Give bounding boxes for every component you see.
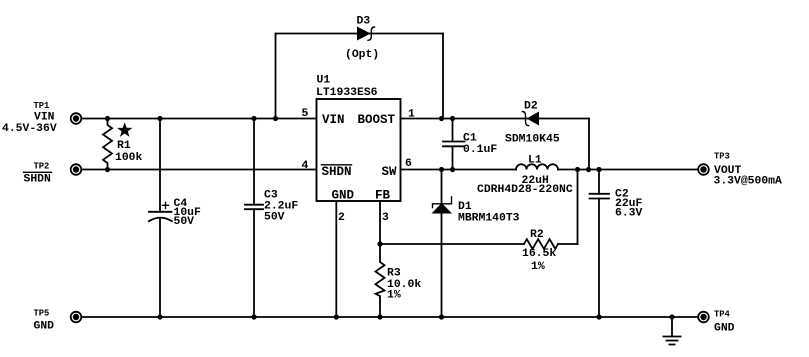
svg-text:GND: GND [34, 321, 55, 333]
svg-text:4.5V-36V: 4.5V-36V [2, 123, 57, 135]
svg-text:D2: D2 [524, 101, 538, 113]
star marker [119, 124, 131, 135]
wire D2 to VOUT vertical [588, 119, 590, 170]
svg-text:MBRM140T3: MBRM140T3 [458, 213, 520, 225]
junction C3 top [251, 116, 256, 121]
junction VOUT-D2 [586, 167, 591, 172]
svg-text:(Opt): (Opt) [345, 49, 379, 61]
svg-text:TP5: TP5 [34, 309, 50, 319]
svg-text:6: 6 [405, 158, 412, 170]
wire VIN bus [82, 118, 317, 120]
wire SW / VOUT bus [401, 169, 699, 171]
junction C4 bottom [157, 314, 162, 319]
svg-text:4: 4 [302, 160, 309, 172]
wire SHDN bus [82, 169, 317, 171]
svg-text:100k: 100k [115, 152, 143, 164]
label U1 [316, 75, 378, 100]
resistor R3 [376, 244, 385, 317]
svg-text:FB: FB [375, 189, 391, 203]
junction D1-GND [439, 314, 444, 319]
label R3 [387, 268, 421, 302]
junction FB node [377, 241, 382, 246]
junction SW-D1 [439, 167, 444, 172]
junction VOUT-C2 [596, 167, 601, 172]
label C2 [615, 189, 643, 220]
label D1 [458, 201, 520, 225]
terminal TP3 [698, 164, 709, 175]
label C3 [264, 190, 298, 224]
svg-text:R3: R3 [387, 268, 401, 280]
junction pin2-GND [334, 314, 339, 319]
junction SW-C1 [450, 167, 455, 172]
svg-text:6.3V: 6.3V [615, 208, 643, 220]
junction C3 bottom [251, 314, 256, 319]
svg-text:TP3: TP3 [714, 152, 730, 162]
svg-text:SHDN: SHDN [322, 165, 352, 179]
resistor R1 [103, 119, 112, 170]
label R1 [115, 140, 143, 164]
svg-text:3.3V@500mA: 3.3V@500mA [714, 176, 783, 188]
svg-text:CDRH4D28-220NC: CDRH4D28-220NC [477, 184, 573, 196]
svg-text:1%: 1% [387, 290, 401, 302]
ground symbol [664, 317, 681, 345]
svg-text:2: 2 [338, 212, 345, 224]
label C4 [174, 198, 202, 228]
junction BOOST-C1 [450, 116, 455, 121]
label D3 [345, 16, 379, 62]
wire D3 loop top [276, 33, 444, 35]
svg-text:D3: D3 [357, 16, 371, 28]
junction C2-GND [596, 314, 601, 319]
terminal TP4 [698, 312, 709, 323]
svg-text:VIN: VIN [322, 113, 345, 127]
junction D3 left [273, 116, 278, 121]
capacitor C4 [149, 119, 172, 318]
label TP1 [2, 101, 57, 135]
diode D2 [522, 112, 539, 126]
terminal TP1 [71, 113, 82, 124]
junction C4 top [157, 116, 162, 121]
svg-text:TP2: TP2 [34, 162, 50, 172]
terminal TP5 [71, 312, 82, 323]
diode D1 [432, 170, 453, 318]
svg-text:SW: SW [382, 165, 398, 179]
svg-text:TP1: TP1 [34, 101, 50, 111]
junction R1 bottom [105, 167, 110, 172]
svg-text:0.1uF: 0.1uF [463, 144, 497, 156]
svg-text:SHDN: SHDN [24, 174, 52, 186]
svg-text:5: 5 [302, 108, 309, 120]
junction BOOST-D3 [439, 116, 444, 121]
svg-text:R2: R2 [530, 229, 544, 241]
label TP2 [24, 162, 52, 186]
junction VOUT-R2 [575, 167, 580, 172]
label TP5 [34, 309, 55, 333]
label D2 [505, 101, 560, 146]
label TP4 [714, 310, 735, 335]
junction GND symbol [669, 314, 674, 319]
resistor R2 [380, 170, 578, 249]
capacitor C3 [245, 119, 263, 318]
wire D3 loop right vertical [442, 34, 444, 119]
diode D3 [357, 27, 375, 41]
pin label SHDN [322, 165, 352, 179]
wire FB pin3 [379, 201, 381, 244]
svg-text:SDM10K45: SDM10K45 [505, 134, 560, 146]
capacitor C1 [443, 119, 465, 170]
svg-text:GND: GND [332, 189, 355, 203]
svg-text:U1: U1 [317, 75, 331, 87]
svg-text:C1: C1 [463, 133, 477, 145]
wire GND pin2 [335, 201, 337, 317]
svg-text:50V: 50V [174, 216, 195, 228]
wire D3 loop left vertical [275, 34, 277, 119]
svg-text:R1: R1 [117, 140, 131, 152]
terminal TP2 [71, 164, 82, 175]
junction R3-GND [377, 314, 382, 319]
svg-text:50V: 50V [264, 212, 285, 224]
wire BOOST pin1 [401, 118, 590, 120]
svg-text:3: 3 [382, 212, 389, 224]
junction R1 top [105, 116, 110, 121]
svg-text:GND: GND [714, 323, 735, 335]
label L1 [477, 155, 573, 197]
svg-text:16.5k: 16.5k [522, 248, 556, 260]
svg-text:L1: L1 [528, 155, 542, 167]
svg-text:TP4: TP4 [714, 310, 731, 320]
label TP3 [714, 152, 783, 188]
svg-text:1%: 1% [531, 261, 545, 273]
capacitor C2 [590, 170, 610, 318]
svg-text:D1: D1 [458, 201, 472, 213]
wire GND bus [82, 316, 699, 318]
svg-text:BOOST: BOOST [358, 113, 396, 127]
op-amp U1 box [317, 99, 401, 201]
label C1 [463, 133, 497, 157]
svg-text:VIN: VIN [34, 112, 55, 124]
svg-text:LT1933ES6: LT1933ES6 [316, 87, 378, 99]
inductor L1 [516, 164, 558, 169]
label R2 [522, 229, 556, 273]
